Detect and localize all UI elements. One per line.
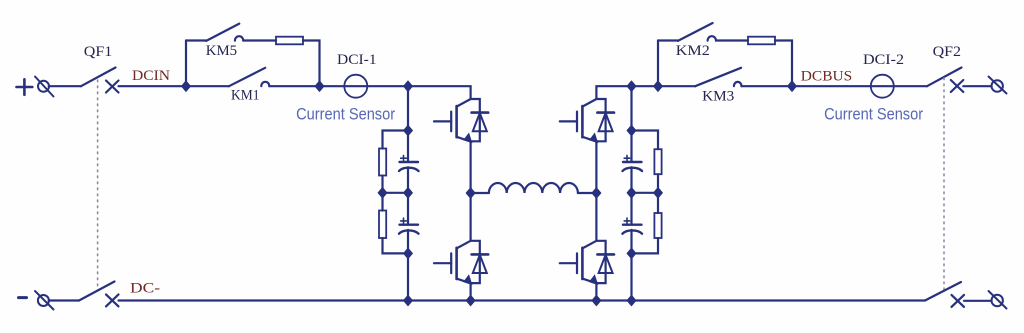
- current sensor DCI-1: [344, 75, 367, 98]
- node mid left res: [378, 188, 387, 198]
- breaker QF1 pole2 blade: [79, 282, 115, 301]
- wire leg right mid: [595, 142, 597, 241]
- breaker QF2 pole2 blade: [925, 282, 961, 301]
- current sensor DCI-2: [871, 75, 894, 98]
- capacitor C2: [399, 225, 419, 234]
- input terminal bottom: [35, 291, 54, 310]
- wire up to KM5 branch: [185, 41, 187, 87]
- wire: [632, 238, 659, 253]
- node mid right rail: [627, 188, 636, 198]
- wire inductor right lead: [578, 192, 597, 194]
- wire: [630, 193, 632, 225]
- capacitor C1 plus: [401, 155, 407, 161]
- wire KM2 branch left: [658, 39, 678, 41]
- resistor R1 balance: [379, 149, 386, 176]
- QF1 linkage dotted: [97, 80, 99, 291]
- wire cap rail right upper: [630, 86, 632, 162]
- output terminal bottom: [989, 291, 1007, 309]
- svg-text:Current Sensor: Current Sensor: [824, 106, 923, 124]
- wire res branch top left: [383, 131, 409, 149]
- wire to bottom rail: [470, 283, 472, 300]
- wire res branch mid left: [381, 193, 383, 211]
- svg-text:DCI-1: DCI-1: [337, 52, 377, 68]
- wire DC- rail: [119, 299, 926, 301]
- contactor KM2 fixed hook: [708, 36, 716, 40]
- breaker QF1 pole1 contact X: [106, 81, 119, 93]
- wire: [383, 176, 409, 193]
- IGBT Q1: [434, 99, 488, 142]
- capacitor C4 plus: [624, 218, 630, 224]
- resistor R4 balance: [654, 213, 661, 238]
- wire: [243, 39, 276, 41]
- IGBT Q3: [560, 99, 614, 142]
- capacitor C3: [623, 162, 643, 171]
- contactor KM3 blade: [695, 68, 741, 86]
- node mid right res: [654, 188, 663, 198]
- wire: [964, 300, 992, 302]
- node KM branch rejoin: [315, 81, 324, 91]
- resistor R3 balance: [654, 149, 661, 174]
- wire through DCI-2: [792, 85, 927, 87]
- breaker QF1 pole2 contact X: [106, 294, 119, 306]
- svg-text:QF2: QF2: [933, 44, 961, 60]
- node inductor left: [466, 188, 475, 198]
- wire: [716, 39, 748, 41]
- resistor R2 balance: [379, 211, 386, 239]
- wire: [383, 238, 409, 253]
- capacitor C4: [623, 225, 643, 234]
- minus terminal sign: [19, 296, 27, 299]
- input terminal top: [35, 77, 54, 97]
- wire: [407, 193, 409, 225]
- capacitor C2 plus: [401, 218, 407, 224]
- wire KM3 left: [658, 85, 695, 87]
- wire cap rail left upper: [407, 86, 409, 162]
- wire: [630, 230, 632, 301]
- wire right leg top: [596, 86, 658, 99]
- breaker QF2 pole2 contact X: [952, 295, 965, 307]
- svg-text:DCI-2: DCI-2: [863, 52, 904, 68]
- wire: [632, 174, 659, 193]
- node res branch left top: [404, 125, 413, 135]
- wire: [303, 41, 320, 87]
- contactor KM5 blade: [206, 24, 239, 41]
- contactor KM1 blade: [229, 68, 265, 86]
- wire to bottom rail: [595, 283, 597, 300]
- node bottom left rail: [404, 295, 413, 305]
- breaker QF1 pole1 blade: [81, 68, 116, 87]
- capacitor C1: [399, 162, 419, 171]
- node inductor right: [592, 188, 601, 198]
- wire: [630, 167, 632, 193]
- svg-text:DCBUS: DCBUS: [801, 68, 852, 84]
- resistor precharge KM2 branch: [748, 37, 775, 45]
- wire top to left leg: [408, 86, 471, 99]
- wire DCIN: [119, 85, 187, 87]
- node DC link right top: [627, 81, 636, 91]
- wire: [269, 85, 319, 87]
- resistor precharge KM5 branch: [276, 37, 303, 45]
- inductor L1: [489, 183, 578, 193]
- capacitor C3 plus: [624, 155, 630, 161]
- output terminal top: [989, 77, 1007, 94]
- node bottom right leg: [592, 295, 601, 305]
- node KM2 branch rejoin: [788, 81, 797, 91]
- node mid left rail: [404, 188, 413, 198]
- wire KM5 branch left: [186, 39, 206, 41]
- IGBT Q2: [434, 241, 488, 284]
- svg-text:KM5: KM5: [206, 43, 237, 59]
- wire: [407, 230, 409, 301]
- svg-text:KM1: KM1: [231, 88, 260, 104]
- wire: [49, 299, 79, 301]
- wire inductor left lead: [471, 192, 489, 194]
- node lower right rail: [627, 248, 636, 258]
- node bottom right rail: [627, 295, 636, 305]
- contactor KM5 fixed hook: [235, 36, 243, 40]
- breaker QF2 pole1 blade: [927, 68, 962, 87]
- wire up to KM2 branch: [657, 41, 659, 87]
- wire: [407, 167, 409, 193]
- breaker QF2 pole1 contact X: [951, 80, 964, 92]
- wire res branch top right: [632, 131, 659, 150]
- wire through DCI-1: [320, 85, 409, 87]
- node KM2 branch junction: [654, 81, 663, 91]
- plus terminal sign: [17, 79, 33, 95]
- svg-text:Current Sensor: Current Sensor: [296, 106, 395, 124]
- svg-text:KM2: KM2: [676, 43, 710, 59]
- node DC link left top: [404, 81, 413, 91]
- wire leg left mid: [470, 142, 472, 241]
- IGBT Q4: [560, 241, 614, 284]
- wire KM1 left: [186, 85, 229, 87]
- contactor KM3 fixed hook: [734, 82, 742, 86]
- contactor KM2 blade: [678, 23, 713, 41]
- contactor KM1 fixed hook: [261, 82, 269, 86]
- svg-text:QF1: QF1: [84, 44, 113, 60]
- svg-text:DCIN: DCIN: [132, 68, 170, 84]
- wire: [775, 41, 792, 87]
- node DCIN junction: [182, 81, 191, 91]
- node lower left rail: [404, 248, 413, 258]
- svg-text:KM3: KM3: [702, 89, 734, 105]
- wire res branch mid right: [657, 193, 659, 213]
- QF2 linkage dotted: [943, 78, 945, 291]
- wire: [963, 85, 991, 87]
- wire: [742, 85, 793, 87]
- svg-text:DC-: DC-: [130, 281, 160, 297]
- node res branch right top: [627, 125, 636, 135]
- node bottom left leg: [466, 295, 475, 305]
- wire: [49, 85, 81, 87]
